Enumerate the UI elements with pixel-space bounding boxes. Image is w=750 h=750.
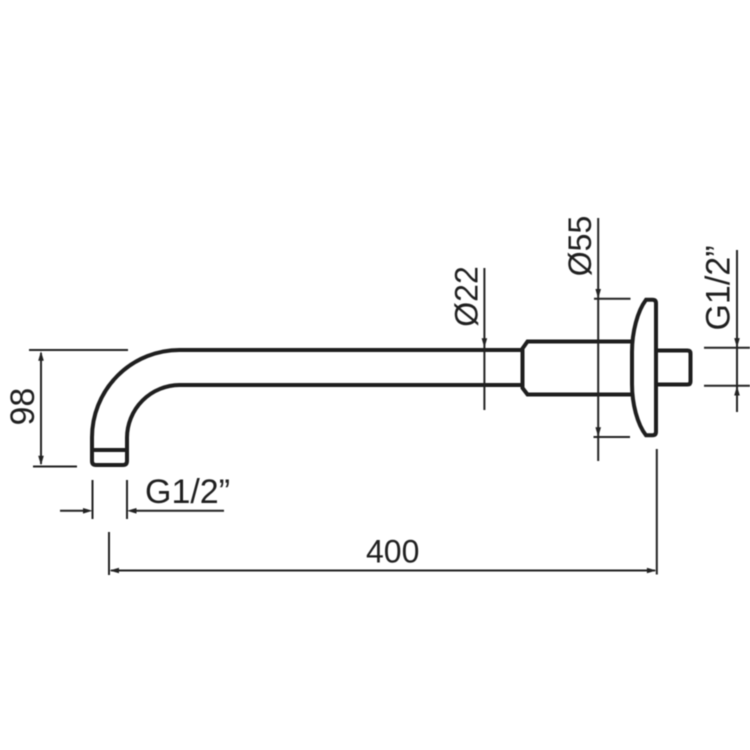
dim 98 down arrow [38,456,44,466]
dim G1/2 bottom left-pointing arrow [127,508,137,514]
dim diameter 55 bottom down arrow [595,427,601,437]
svg-text:400: 400 [366,534,419,570]
dim 400 left extension line [108,532,110,575]
dim diameter 55 bottom tick [594,436,631,438]
dim diameter 22 dimension line [483,268,485,410]
dim G1/2 bottom left extension line [92,480,94,519]
dim diameter 55 top tick [594,298,631,300]
dim diameter 55 dimension line [597,218,599,461]
dim 400 dimension line [111,570,655,572]
svg-text:Ø22: Ø22 [449,266,485,326]
dim G1/2 right up arrow [734,386,740,396]
svg-text:G1/2”: G1/2” [145,473,230,511]
dim 400 right extension line [656,449,658,575]
dim 98 up arrow [38,351,44,361]
dim diameter 22 down arrow [482,338,488,348]
dim G1/2 bottom right leader [135,510,224,512]
dim G1/2 right dimension line [736,250,738,412]
dim G1/2 bottom right-pointing arrow [83,508,93,514]
wall flange escutcheon [632,300,656,436]
dim 98 bottom extension line [33,466,77,468]
svg-text:Ø55: Ø55 [562,216,598,276]
dim 98 vertical dimension line [40,353,42,464]
dim G1/2 right down arrow [734,338,740,348]
svg-text:98: 98 [4,388,42,426]
dim diameter 55 top down arrow [595,289,601,299]
dim G1/2 bottom right extension line [126,480,128,519]
dim 400 left arrow [110,568,120,574]
tube end cap line [92,448,127,452]
threaded stub pipe [656,351,691,385]
dim G1/2 right bottom tick [704,385,750,387]
svg-text:G1/2”: G1/2” [700,245,738,330]
wall sleeve cylinder [523,342,635,395]
dim 400 right arrow [647,568,657,574]
dim G1/2 bottom left leader [60,510,85,512]
dim G1/2 right top tick [704,347,750,349]
shower arm tube outline [92,350,523,465]
dim 98 top extension line [29,349,128,351]
